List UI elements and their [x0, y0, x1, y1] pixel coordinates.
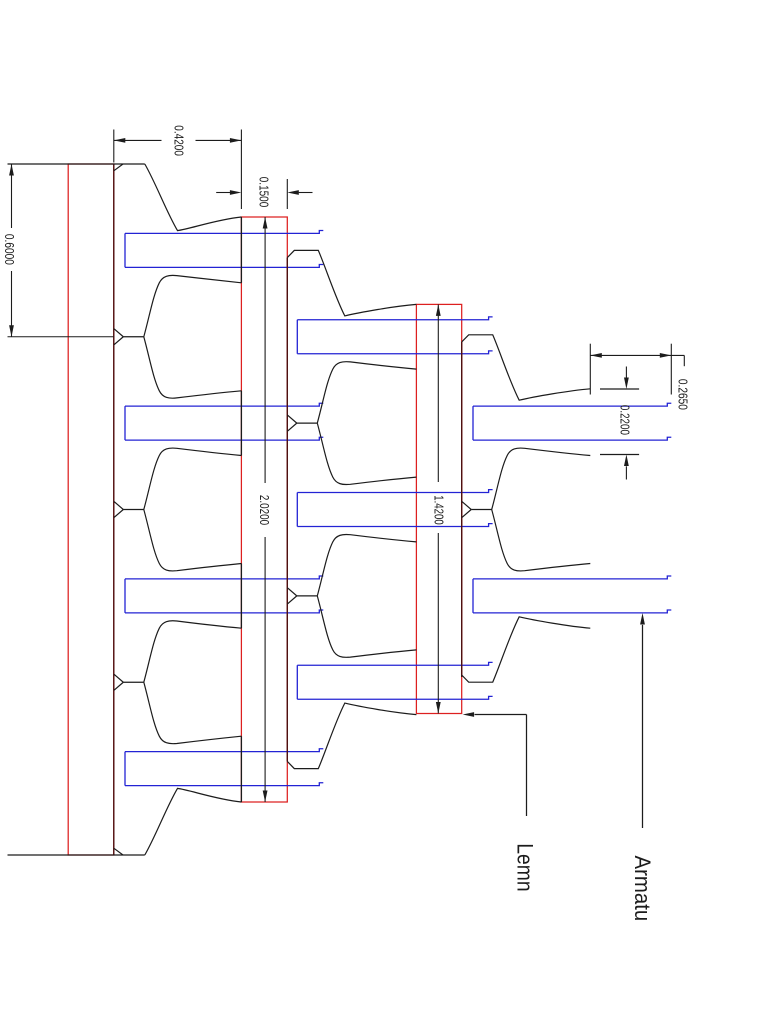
- comb-1 bottom outer edge: [8, 854, 145, 856]
- dim 0.2200 arrows: [625, 367, 627, 378]
- comb-1 notch 3: [114, 674, 124, 682]
- comb-2 bottom cap half tooth: [287, 703, 416, 769]
- comb-3 notch: [462, 501, 472, 509]
- comb-3 top cap half tooth: [462, 335, 591, 400]
- comb-1 notch 2: [114, 501, 124, 509]
- blue winding coil L1: [125, 230, 323, 267]
- blue winding coil M1: [297, 317, 492, 354]
- blue winding coil M3: [297, 662, 492, 699]
- comb-1 slot mouth closure 2: [240, 391, 242, 456]
- comb-1 top end tooth profile: [145, 164, 242, 231]
- dim 0.1500 extension line: [286, 179, 288, 209]
- svg-text:0.6000: 0.6000: [2, 234, 17, 265]
- comb-1 dome tooth 3 lower edge: [144, 682, 242, 743]
- dim 0.6000 line: [11, 164, 13, 228]
- dim 0.1500 line: [216, 192, 230, 194]
- svg-text:Lemn: Lemn: [513, 843, 538, 891]
- comb-1 dome tooth 2 upper edge: [144, 448, 242, 509]
- red wood bar rect C (right, 1.4200 tall): [416, 304, 461, 713]
- leader Armatu arrow: [640, 613, 645, 625]
- comb-2 notch 1: [287, 415, 297, 423]
- dim 2.0200 line: [264, 217, 266, 483]
- dim 0.4200 line: [114, 139, 162, 141]
- svg-text:0.2200: 0.2200: [617, 405, 632, 435]
- dim 0.2650 line: [590, 354, 684, 356]
- comb-1 top outer edge: [8, 163, 145, 165]
- blue winding coil R2: [473, 576, 671, 613]
- comb-1 dome tooth 1 upper edge: [144, 275, 242, 336]
- comb-3 dome tooth lower edge: [492, 510, 591, 571]
- comb-1 bottom half-notch: [114, 848, 123, 855]
- blue winding coil R1: [473, 403, 671, 440]
- dim 0.2200 reference bars: [600, 388, 639, 390]
- comb-2 top cap half tooth: [287, 250, 416, 316]
- svg-text:1.4200: 1.4200: [432, 495, 447, 525]
- blue winding coil L3: [125, 576, 323, 613]
- blue winding coil L4: [125, 749, 323, 786]
- comb-2 notch 2: [287, 588, 297, 596]
- comb-2 dome tooth 2 upper edge: [317, 534, 416, 595]
- dim 0.6000 extension line: [8, 336, 114, 338]
- comb-1 bottom end tooth profile: [145, 788, 242, 855]
- blue winding coil M2: [297, 490, 492, 527]
- comb-1 slot mouth closure 4: [240, 736, 242, 802]
- leader Lemn arrow: [463, 712, 475, 717]
- dim 0.2650 extension lines: [589, 344, 591, 395]
- svg-text:Armatu: Armatu: [630, 856, 655, 922]
- comb-3 bottom cap half tooth: [462, 617, 591, 682]
- comb-1 dome tooth 3 upper edge: [144, 621, 242, 682]
- dim 1.4200 line: [437, 304, 439, 482]
- red wood bar rect A (left): [68, 164, 114, 855]
- svg-text:0.1500: 0.1500: [257, 177, 272, 208]
- comb-1 dome tooth 1 lower edge: [144, 337, 242, 398]
- comb-1 slot mouth closure 1: [240, 217, 242, 283]
- comb-2 dome tooth 1 upper edge: [317, 362, 416, 423]
- comb-1 dome tooth 2 lower edge: [144, 510, 242, 571]
- comb-1 notch 1: [114, 329, 124, 337]
- blue winding coil L2: [125, 403, 323, 440]
- svg-text:2.0200: 2.0200: [257, 495, 272, 525]
- comb-3 dome tooth upper edge: [492, 448, 591, 509]
- comb-2 dome tooth 2 lower edge: [317, 596, 416, 657]
- dim 0.4200 extension lines: [113, 130, 115, 163]
- comb-1 top half-notch: [114, 164, 123, 171]
- red wood bar rect B (middle, 0.1500 x 2.0200): [241, 217, 287, 802]
- comb-3 yoke line (over red, maroon): [461, 342, 463, 677]
- comb-2 dome tooth 1 lower edge: [317, 423, 416, 484]
- comb-1 yoke line (over red, maroon): [113, 164, 115, 855]
- svg-text:0.2650: 0.2650: [676, 379, 691, 410]
- comb-2 yoke line (over red, maroon): [286, 258, 288, 762]
- comb-1 slot mouth closure 3: [240, 564, 242, 629]
- svg-text:0.4200: 0.4200: [171, 125, 186, 156]
